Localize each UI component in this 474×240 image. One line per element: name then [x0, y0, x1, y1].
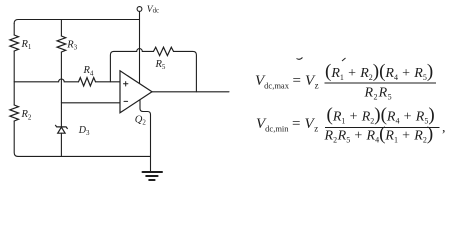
equation Vdc,min — [256, 105, 446, 145]
svg-text:Q2: Q2 — [135, 115, 147, 127]
op-amp U1 triangle — [120, 71, 152, 113]
wire output — [152, 91, 229, 93]
wire feedback left side (junction up to R5 rail) — [110, 51, 114, 81]
op-amp + input mark — [124, 82, 128, 86]
resistor R2 — [10, 105, 19, 121]
svg-text:D3: D3 — [78, 125, 90, 137]
wire second branch lower (D3 to bottom rail) — [60, 133, 62, 156]
wire top rail — [14, 20, 139, 24]
op-amp - input mark — [124, 100, 128, 102]
wire minus input (zener node to op-amp -) — [61, 102, 120, 104]
wire left branch upper (to R1) — [13, 23, 15, 35]
ground — [143, 172, 163, 180]
zener diode D3 — [56, 125, 68, 133]
svg-text:R2R5+R4(R1+R2): R2R5+R4(R1+R2) — [324, 124, 434, 145]
svg-text:(R1+R2)(R4+R5): (R1+R2)(R4+R5) — [327, 105, 435, 126]
wire second branch upper (top rail to R3) — [60, 20, 62, 37]
stray mark 2 (cropped accent) — [342, 58, 346, 61]
svg-text:R2R5: R2R5 — [364, 86, 392, 102]
svg-text:Vdc,max=Vz: Vdc,max=Vz — [255, 73, 319, 91]
wire Vdc stem down to op-amp V+ pin — [139, 11, 141, 83]
wire divider tap to R4 (hop over second branch) — [14, 79, 78, 82]
svg-text:Vdc: Vdc — [147, 5, 159, 15]
resistor R3 — [57, 36, 66, 52]
svg-text:R5: R5 — [155, 59, 166, 71]
svg-text:R2: R2 — [21, 109, 32, 121]
wire R5 to right corner and down to output — [174, 51, 197, 91]
svg-text:(R1+R2)(R4+R5): (R1+R2)(R4+R5) — [325, 61, 433, 82]
wire left branch middle (R1 to tap) — [13, 51, 15, 105]
wire R4 to op-amp + input — [96, 81, 121, 83]
svg-text:R3: R3 — [66, 39, 77, 51]
wire bottom rail — [18, 155, 151, 157]
wire R5 rail with hop over Vdc stem — [114, 49, 154, 52]
wire left branch lower (R2 to bottom rail) — [14, 121, 18, 156]
svg-text:R4: R4 — [83, 65, 94, 77]
svg-text:,: , — [442, 121, 446, 136]
resistor R4 — [79, 78, 96, 86]
stray mark 1 (cropped text above equations) — [297, 58, 303, 60]
resistor R1 — [10, 35, 19, 51]
svg-text:R1: R1 — [21, 39, 32, 51]
svg-text:Vdc,min=Vz: Vdc,min=Vz — [256, 116, 318, 134]
wire second branch middle (R3 to D3) — [60, 52, 62, 127]
equation Vdc,max — [255, 61, 436, 102]
resistor R5 — [154, 47, 174, 55]
node Vdc terminal circle — [137, 7, 142, 12]
wire op-amp V- pin down to ground rail — [140, 100, 151, 171]
